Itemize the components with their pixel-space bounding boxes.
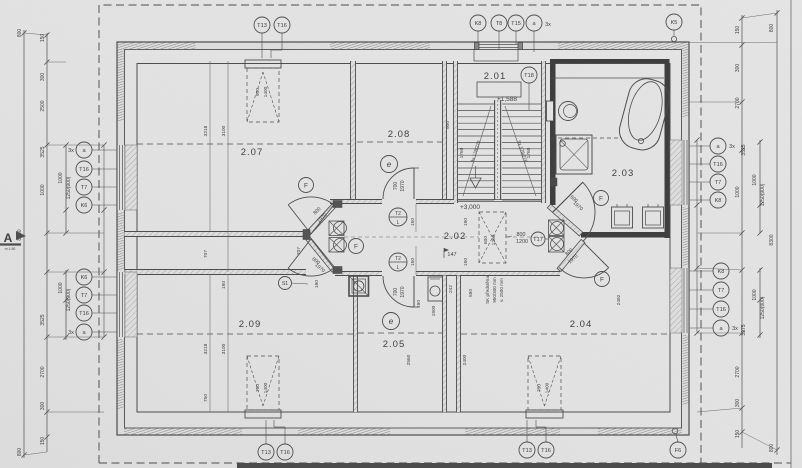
dimension chain left middle [44,32,49,452]
leaders top group [477,31,479,42]
stair window jambs [475,43,480,50]
right chain connectors [742,13,777,18]
left inner sub-chains [63,142,68,340]
circle F NE [594,191,609,206]
window reveal hatch right upper [670,140,682,205]
circle F6 bottom [670,442,686,458]
dimension chain right outer [774,10,779,455]
wall hall bottom west of door [335,272,382,276]
wall hall SE chamfer (chamfer) [557,239,585,271]
circle a top [526,15,542,31]
circles left lower group [76,269,92,285]
bathroom inner ledge line [551,77,664,79]
wall right of 2.08 (duct) [443,61,447,203]
outer wall envelope with hatch band [117,42,689,435]
right inner sub-chains [757,139,762,338]
door hall to 2.09 [288,239,334,276]
roof window hall (dashed box with X) [479,212,506,263]
circles right lower group [713,263,729,279]
washbasin 2 [643,204,664,228]
hall dashed guide [344,236,479,238]
duct squares right vertex [549,220,565,236]
window reveal hatch right lower [670,268,682,333]
circle T16 top-left [274,17,290,33]
circle T2/L lower [389,253,407,271]
door jambs left vertex [303,230,310,240]
door leaf hall to 2.03 [553,182,583,212]
stair down arrow [470,178,481,188]
door hall to 2.08 [383,168,419,199]
bathroom heavy wall right [665,59,670,238]
chain connectors left [24,33,47,35]
stair vestibule outline [474,50,518,62]
roof window in 2.09 [245,356,281,418]
section mark A [0,231,26,251]
bathroom 2.03 heavy wall left [550,59,556,205]
window opening right wall upper [682,140,688,205]
washbasin 1 [612,204,633,228]
label 800/1200 [506,236,512,237]
margin dim line right [694,137,699,335]
ceiling-height dashed line 2.05 [358,332,442,334]
wall 2.04 left (duct) [457,276,461,413]
window reveal hatch left lower [125,272,137,337]
ceiling-height dashed line 2.07 [137,143,350,145]
stairwell 2.01 stairs [458,82,541,200]
circle T13 top-left [254,17,270,33]
bathroom heavy wall top [550,59,670,63]
roof window in 2.07 [245,60,281,122]
circle K5 top-right [666,14,682,30]
wall stairwell left [454,61,458,203]
ceiling-height dashed line 2.04 [461,333,670,335]
interior dim lines hall [415,204,417,232]
circle F NW [299,178,314,193]
bathroom door jamb [551,178,557,186]
wall hall top east of door [416,200,454,204]
wall hall NE chamfer (bathroom door) (chamfer) [547,204,582,236]
bathroom dashed height line [551,137,622,139]
dimension chain right middle [739,15,744,448]
stair landing [477,82,521,97]
wall hall NW chamfer (chamfer) [306,204,336,235]
wall between 2.07 and 2.08 [351,61,356,203]
circle F SW [349,239,364,254]
shower tray [556,135,592,174]
interior dim lines rooms left [209,61,211,231]
leaders [261,33,263,58]
ceiling-height dashed line 2.09 [137,333,353,335]
door hall to 2.07 [288,197,334,234]
flue box at 2.05 top-right [428,277,443,301]
circle T17 [531,232,545,246]
circles left upper group [76,142,92,158]
circle S1 [279,277,292,290]
circle K8 top [470,15,486,31]
window opening left wall lower [118,272,125,337]
bottom dark band [237,463,772,468]
bathroom heavy wall bottom / 2.04 top [581,232,670,238]
window opening top wall at stairs [479,43,518,50]
wall 2.09 top (west strip) [125,270,307,275]
window opening right wall lower [682,268,688,333]
circle e at 2.08 door [381,156,398,173]
door hall to 2.03 [553,182,595,241]
door hall to 2.04 [559,243,608,278]
circle e at 2.05 door [383,313,400,330]
wall 2.05 right (duct) [443,276,447,413]
wall hall bottom east of door [416,272,560,276]
wall hall SW chamfer (chamfer) [306,237,336,272]
circles right upper group [710,138,726,154]
circle F SE [595,272,610,287]
chain connectors right [697,232,742,234]
window reveal hatch left upper [125,145,137,210]
wall 2.07 bottom (west strip) [125,232,307,237]
window opening left wall upper [118,145,125,210]
dimension chain left outer [21,30,26,458]
chimney flue at 2.05 top-left [349,276,369,296]
circle T15 top [508,15,524,31]
circle T8 top [491,15,507,31]
door hall to 2.05 [383,276,419,307]
margin dim line left [101,142,106,339]
circles bottom-left pair [258,444,274,460]
K5 vent [673,30,675,36]
circles bottom-right pair [519,442,535,458]
hatch patches [118,43,196,50]
ceiling-height dashed line 2.08 [357,141,442,143]
paper right edge [790,0,792,468]
wall hall top west of door [330,200,382,204]
knee wall line [137,64,670,413]
wall stairwell right [542,61,546,203]
roof window in 2.04 [526,356,563,418]
circle T18 at stairs [521,67,537,83]
bathtub [615,75,673,154]
duct squares left vertex [329,221,347,236]
circle T2/L upper [389,208,407,226]
stair bottom edge [458,201,542,203]
toilet WC [547,101,578,121]
wall between 2.09 and 2.05 [354,276,358,413]
